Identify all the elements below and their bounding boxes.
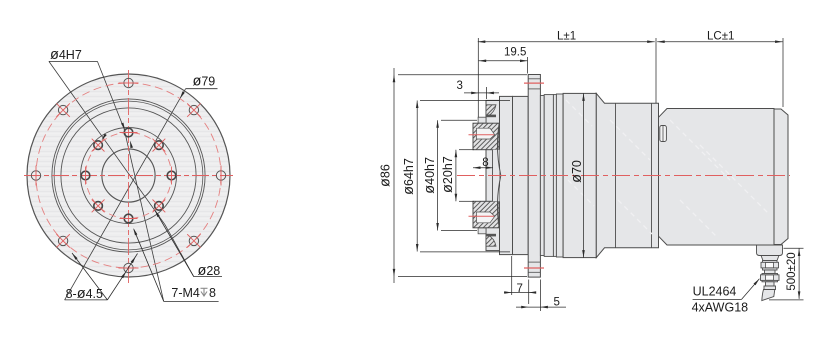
svg-text:8: 8 xyxy=(209,286,216,300)
front view flange disc Ø86 xyxy=(27,74,230,277)
svg-text:19.5: 19.5 xyxy=(504,47,526,59)
side view: groove ring xyxy=(553,95,556,257)
side view: ring step B xyxy=(544,95,553,257)
side view: motor body xyxy=(659,109,775,246)
svg-text:500±20: 500±20 xyxy=(786,252,798,290)
dimension Ø86 xyxy=(377,68,527,283)
faint sheen lines on body xyxy=(566,100,770,238)
dimension Ø70 xyxy=(569,93,585,257)
svg-text:ø20h7: ø20h7 xyxy=(440,156,456,193)
side view: housing front plate (7mm) xyxy=(513,96,529,254)
motor indicator window xyxy=(660,126,667,142)
side view: motor rear end cap xyxy=(774,109,788,245)
red centreline of top flange bolt hole xyxy=(524,82,544,84)
svg-text:3: 3 xyxy=(457,80,463,92)
red vertical centreline xyxy=(128,70,130,283)
svg-text:4xAWG18: 4xAWG18 xyxy=(692,301,749,315)
side view: ring step C xyxy=(556,94,563,257)
side view: ring step A xyxy=(540,96,544,256)
side view: housing plate 1 xyxy=(500,96,513,254)
red centreline of hub tapped hole bottom xyxy=(469,215,495,217)
dimension 3 xyxy=(457,80,500,99)
long leader line from Ø4H7 label through top hole down to 7-M4 underline xyxy=(97,61,163,301)
output hub cross-section top half (hatched) xyxy=(473,105,501,176)
dimension 7 xyxy=(504,256,536,295)
8 outer bolt holes Ø4.5 xyxy=(31,78,225,272)
dimension 500±20 xyxy=(769,248,804,300)
label UL2464 4xAWG18 with leader to cable xyxy=(692,279,760,315)
svg-text:ø70: ø70 xyxy=(569,160,585,183)
side view: main gearbox cylinder Ø70 xyxy=(563,93,596,257)
concentric circle Ø20 bore xyxy=(102,149,155,202)
svg-text:UL2464: UL2464 xyxy=(693,285,737,299)
dimension Ø20h7 xyxy=(440,150,474,202)
dimension LC±1 xyxy=(657,30,783,107)
concentric circle housing step xyxy=(61,108,196,243)
svg-text:7-M4: 7-M4 xyxy=(171,286,200,300)
label Ø79 with underline and arrows on bolt circle xyxy=(180,74,218,99)
label 7-M4 depth 8 with leader to bottom tapped hole xyxy=(133,228,218,301)
side view: adapter section with chamfer xyxy=(596,93,658,257)
dimension 5 xyxy=(516,280,566,312)
dimension 19.5 xyxy=(479,47,528,74)
svg-text:8: 8 xyxy=(482,157,488,169)
side view: output cap ring Ø64 xyxy=(486,100,500,250)
svg-text:ø86: ø86 xyxy=(377,164,393,187)
red crosshair marks on inner holes xyxy=(86,133,172,219)
red main horizontal centreline of side view xyxy=(457,175,790,177)
red pitch circle Ø28 dashed xyxy=(86,133,172,219)
red bolt circle Ø79 dashed xyxy=(36,83,221,268)
red horizontal centreline xyxy=(24,175,233,177)
long leader line X2 from Ø79 underline to 8-Ø4.5 underline through centre xyxy=(65,89,186,300)
label 8-Ø4.5 with leader to bottom bolt hole and branch to bolt circle xyxy=(65,253,138,302)
dimension L±1 xyxy=(478,30,656,117)
red centreline of bottom flange bolt hole xyxy=(524,267,544,269)
label Ø28 with leader to pitch circle xyxy=(155,210,222,279)
svg-text:ø4H7: ø4H7 xyxy=(50,47,82,63)
svg-text:LC±1: LC±1 xyxy=(707,30,734,42)
label Ø4H7 with leader to top pin hole xyxy=(49,47,133,148)
dimension 8 (hub) xyxy=(473,157,493,169)
output hub cross-section bottom half (hatched, mirrored) xyxy=(473,176,501,247)
8 inner tapped holes M4 on Ø28 pitch xyxy=(81,128,176,223)
cable gland and cable assembly xyxy=(757,245,783,301)
svg-text:L±1: L±1 xyxy=(557,30,576,42)
svg-text:ø64h7: ø64h7 xyxy=(401,158,417,195)
svg-text:ø79: ø79 xyxy=(193,74,216,90)
dimension Ø40h7 xyxy=(422,120,477,230)
red crosshair marks on outer holes xyxy=(36,83,221,268)
side view: mounting flange Ø86 xyxy=(528,75,540,278)
svg-text:7: 7 xyxy=(517,283,523,295)
svg-text:ø40h7: ø40h7 xyxy=(422,157,438,194)
red centreline of hub tapped hole top xyxy=(469,134,495,136)
concentric circle Ø64 boss xyxy=(52,99,205,252)
dimension Ø64h7 xyxy=(401,101,510,252)
concentric circle Ø40 boss xyxy=(81,128,177,224)
stray arrowhead near upper-left hole xyxy=(102,134,107,141)
svg-text:5: 5 xyxy=(554,297,560,309)
long leader line X1 from Ø4H7 underline to 7-M4 underline through centre xyxy=(49,61,194,276)
